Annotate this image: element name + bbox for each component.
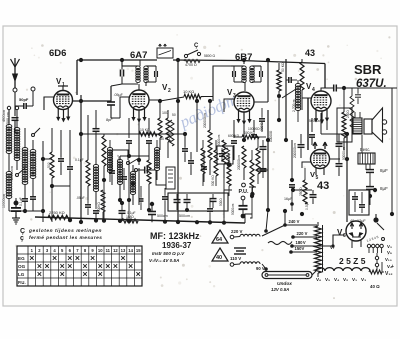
tuning coil L2: [14, 110, 20, 161]
svg-text:0.5μF: 0.5μF: [305, 201, 309, 210]
wire V4 top: [321, 88, 331, 92]
caps right of V3: [286, 77, 297, 83]
V5 bottom cap: [310, 190, 317, 204]
dots bottom extra: [68, 218, 226, 225]
tube V2 pins: [132, 108, 146, 122]
dot V3 cathode: [227, 162, 232, 167]
caps on bottom bus: [93, 198, 213, 222]
label 12uF: [350, 219, 366, 223]
capacitor 0.1uF left: [19, 196, 28, 211]
label V2: [162, 83, 171, 94]
wire V6 bottom pins: [352, 240, 361, 248]
cap x124 y176: [121, 168, 127, 190]
svg-text:Ç: Ç: [194, 43, 199, 49]
label 50 h: [172, 113, 176, 117]
svg-text:13: 13: [121, 248, 126, 253]
label 200000cm V5: [293, 143, 297, 158]
measurement table grid: [17, 246, 142, 286]
V2 screen res: [166, 110, 170, 158]
svg-text:43: 43: [305, 48, 315, 58]
svg-text:500Ω: 500Ω: [219, 198, 223, 206]
cap right V5 col: [336, 134, 343, 156]
svg-text:MF: 123kHz: MF: 123kHz: [150, 231, 200, 241]
wire v234 extend: [233, 145, 235, 160]
heater chain coils: [312, 268, 370, 275]
cap V4 cathode: [309, 135, 315, 145]
res on mid bus: [139, 128, 157, 136]
wire top bus drop at x122: [121, 60, 123, 66]
wire V1 plate to C: [73, 100, 112, 102]
mains cap stack: [234, 248, 246, 254]
wire rail x286: [285, 59, 287, 140]
label 50000cm V5: [342, 147, 346, 160]
svg-text:10: 10: [98, 248, 103, 253]
svg-text:ç: ç: [20, 235, 24, 242]
svg-text:240 V: 240 V: [289, 219, 300, 224]
tone control box: [157, 44, 173, 58]
band switch: [16, 128, 41, 177]
junctions under V2: [120, 138, 149, 165]
svg-text:2: 2: [168, 88, 171, 94]
tube V3 pins: [237, 110, 251, 124]
res PU: [250, 150, 254, 198]
tuning coil L3: [22, 128, 28, 185]
svg-text:600 KΩ: 600 KΩ: [228, 134, 240, 138]
svg-text:200000cm: 200000cm: [237, 155, 241, 170]
bottom bus: [35, 217, 245, 223]
tube V4 pins: [315, 109, 329, 123]
label 4900cm: [2, 110, 6, 122]
svg-text:10 KΩ: 10 KΩ: [140, 128, 150, 132]
IF1 cap right: [155, 66, 158, 82]
label 1936-37: [162, 241, 192, 250]
label V7V10: [149, 258, 179, 263]
svg-text:15: 15: [136, 248, 141, 253]
tuning coil L4: [30, 140, 36, 179]
svg-text:P.U.: P.U.: [239, 189, 249, 195]
labels 100 50K: [160, 111, 170, 141]
label 25Z5: [339, 256, 366, 266]
svg-text:250Ω: 250Ω: [346, 110, 350, 118]
label 05uF b: [76, 196, 85, 200]
cathode box V3: [217, 146, 233, 164]
label 43 top: [305, 48, 315, 58]
label 637U: [356, 78, 387, 90]
label 12V 05A: [271, 287, 289, 292]
filter block cap 3: [210, 194, 217, 208]
AVC diagonal wire: [282, 89, 296, 98]
label 10000cm: [2, 194, 6, 208]
V2 pins bottom wires: [129, 112, 149, 138]
earth terminal: [31, 87, 35, 91]
wire top bus drop at x244: [243, 60, 245, 64]
coil under 8pF: [93, 164, 98, 205]
cap 500cm bottom: [148, 202, 168, 223]
label Undox: [277, 281, 292, 287]
capacitor left x33: [30, 192, 36, 206]
IF2 coil left: [242, 66, 246, 83]
wire y222 drops: [52, 152, 224, 222]
svg-text:0.2μF: 0.2μF: [117, 155, 121, 163]
wire mid box: [112, 150, 170, 185]
res under V3 b: [242, 146, 246, 180]
svg-text:50 KΩ: 50 KΩ: [281, 62, 285, 72]
svg-text:220 V: 220 V: [231, 229, 243, 234]
res x103 low: [97, 190, 105, 221]
cap x263 a: [260, 140, 267, 156]
label Instr: [152, 251, 185, 256]
right V column: [385, 244, 392, 269]
table row labels: [18, 256, 26, 285]
cap x262 y120: [259, 108, 265, 132]
svg-text:110 V: 110 V: [230, 256, 241, 261]
svg-text:500 cm: 500 cm: [179, 214, 190, 218]
svg-text:0.1μF: 0.1μF: [75, 158, 84, 162]
Undox ballast: [262, 272, 312, 279]
wire v149 extend: [147, 200, 151, 212]
wire V2 grid left: [120, 97, 130, 118]
speaker body: [364, 108, 383, 142]
junction left bottom: [14, 201, 46, 214]
label 6A7: [130, 50, 147, 61]
svg-text:V₇: V₇: [330, 245, 335, 250]
junction x347: [321, 132, 349, 136]
label V3: [227, 88, 236, 99]
label 10000 rot: [269, 130, 273, 142]
capacitor antenna series: [12, 118, 19, 133]
bottom junctions: [94, 218, 212, 224]
svg-text:14: 14: [128, 248, 133, 253]
V4 bottom wires: [312, 113, 327, 134]
cap x191 y160: [188, 152, 194, 175]
filter block box: [168, 193, 228, 211]
svg-text:4700 Ω: 4700 Ω: [185, 63, 197, 67]
wire y87 to speaker: [340, 87, 397, 89]
wire top bus right: [173, 60, 325, 64]
svg-text:10000cm: 10000cm: [2, 194, 6, 208]
svg-text:1936-37: 1936-37: [162, 241, 192, 250]
tube V1: [54, 91, 73, 110]
svg-text:200000cm: 200000cm: [203, 113, 207, 128]
svg-text:90 V: 90 V: [256, 266, 265, 271]
wire top bus drop at x77: [76, 60, 78, 95]
wire x292 vert: [290, 140, 294, 182]
svg-text:4900cm: 4900cm: [2, 110, 6, 122]
screen resistor V1: [86, 160, 90, 200]
cap left V5 col: [298, 134, 305, 158]
wire rail x96: [95, 142, 97, 165]
IF2 cap right: [260, 66, 263, 82]
svg-text:gesloten tijdens metingen: gesloten tijdens metingen: [28, 228, 102, 234]
wire 90V to Undox: [262, 264, 266, 272]
svg-text:V₃: V₃: [387, 244, 392, 249]
res on rail 178: [170, 104, 174, 146]
tube V5 top pins: [313, 142, 327, 149]
capacitor cathode bypass: [58, 130, 64, 175]
switch C with resistor 4700: [184, 43, 201, 67]
coil L1b: [6, 171, 12, 211]
wire rail x88: [87, 115, 89, 160]
res x258 y150: [256, 136, 260, 184]
svg-text:150V: 150V: [295, 246, 305, 251]
ladder taps: [283, 219, 317, 254]
tube V6: [346, 221, 366, 241]
table header numbers: [31, 248, 142, 253]
wire x59 y186: [52, 180, 70, 186]
tube V3: [234, 92, 254, 112]
coil x110 y150: [107, 140, 112, 182]
res AVC2: [214, 140, 218, 186]
label MF 123kHz: [150, 231, 200, 241]
output transformer: [353, 112, 362, 134]
svg-text:P.U.: P.U.: [18, 280, 26, 285]
cap right V5 col2: [336, 156, 343, 176]
svg-text:180 V: 180 V: [296, 240, 306, 245]
wire coil bank mid: [9, 153, 33, 196]
triangle 40: [212, 248, 228, 261]
junction dots misc: [79, 58, 377, 216]
scan speckle texture: [15, 34, 391, 299]
svg-text:.05μF: .05μF: [76, 196, 85, 200]
wire bottom right hook: [245, 210, 268, 233]
svg-text:8pF: 8pF: [106, 118, 113, 122]
cap 8uF no2: [366, 182, 388, 196]
wire 268 to PU: [256, 169, 268, 171]
capacitor 0.1uF V1: [67, 130, 73, 180]
wire V6 left: [292, 235, 346, 248]
label V7 small: [330, 245, 335, 250]
label 50000cm: [309, 119, 323, 123]
wire V4 grid: [302, 98, 312, 110]
svg-text:500 KΩ: 500 KΩ: [211, 175, 215, 186]
svg-text:12: 12: [113, 248, 118, 253]
vert comp 2-700cm: [292, 80, 301, 122]
legend line 1: [20, 228, 102, 235]
legend line 2: [20, 235, 102, 242]
svg-text:10000Ω: 10000Ω: [248, 127, 260, 131]
IF2 top rail: [231, 65, 261, 67]
res AVC: [203, 99, 221, 175]
coil under V2: [117, 156, 122, 202]
res x203 y150: [201, 140, 205, 186]
svg-text:11: 11: [106, 248, 111, 253]
junction V1 cathode: [41, 141, 52, 161]
svg-text:V₁₀: V₁₀: [385, 257, 392, 262]
wire rail x347: [346, 134, 348, 222]
wire 10K leads: [160, 97, 213, 102]
label 05uF V5: [305, 201, 309, 210]
capacitor .05uF coupling: [107, 93, 124, 105]
vres x104: [102, 134, 106, 182]
wire V2 right rail: [149, 100, 160, 110]
wire v139 extend: [138, 168, 140, 205]
res 600K bottom: [234, 131, 266, 139]
wire right rail x392 low: [390, 140, 394, 216]
res under V2b: [147, 156, 151, 200]
mains 220V terminal: [230, 229, 260, 239]
junction x81: [79, 99, 83, 224]
wire heater right: [381, 262, 383, 272]
line cord squiggle: [268, 241, 292, 244]
wire mid link: [81, 133, 104, 135]
label V4: [306, 82, 315, 93]
svg-text:SBR: SBR: [354, 62, 382, 77]
filter block cap 2: [184, 194, 191, 212]
res 40ohm: [369, 270, 382, 289]
filter can box: [349, 190, 369, 215]
svg-text:40 Ω: 40 Ω: [370, 284, 380, 289]
wire speaker right rail: [391, 88, 393, 140]
label V1: [56, 77, 65, 88]
wire top bus left: [77, 59, 157, 61]
svg-text:Ç: Ç: [20, 228, 25, 235]
svg-text:200000cm: 200000cm: [293, 143, 297, 158]
svg-text:+: +: [391, 264, 394, 270]
cap x185: [182, 132, 188, 162]
ladder resistor: [315, 222, 323, 277]
mains 110V terminal: [230, 256, 260, 266]
coil x157 y150: [154, 140, 159, 180]
IF2 bottom rail: [234, 82, 261, 91]
wire V3 grid: [224, 99, 235, 112]
cap 8uF no1: [366, 164, 388, 182]
svg-text:LG: LG: [18, 272, 25, 277]
wire x197: [195, 99, 199, 152]
IF1 coil right: [144, 66, 148, 83]
coupling cap V4: [331, 85, 340, 92]
svg-text:Instr 500 Ω p.V: Instr 500 Ω p.V: [152, 251, 185, 256]
svg-text:50pF: 50pF: [19, 97, 29, 102]
osc junction dot: [131, 182, 135, 186]
tube V4: [311, 91, 331, 111]
triangle 64: [212, 230, 228, 243]
svg-text:100: 100: [162, 111, 168, 115]
antenna terminal: [13, 88, 17, 92]
svg-text:500cm: 500cm: [157, 214, 168, 218]
svg-text:8μF: 8μF: [380, 168, 388, 173]
res x229 y165: [227, 155, 231, 196]
label 1MOhm: [122, 215, 138, 223]
antenna: [11, 58, 20, 88]
res under V3: [222, 112, 226, 178]
wire IF2 feed: [213, 66, 231, 101]
V5 left parts: [299, 168, 307, 204]
mid bus y134: [104, 133, 185, 135]
svg-text:64: 64: [216, 237, 223, 243]
wire v129 extend: [127, 160, 131, 202]
wire antenna down: [14, 92, 16, 116]
svg-text:50: 50: [172, 113, 176, 117]
band switch box: [166, 167, 175, 189]
wire rail x81: [80, 95, 82, 222]
heater chain labels: [316, 277, 366, 282]
V3 bottom parts: [231, 114, 257, 143]
label 10000 d: [248, 127, 260, 131]
switch mains lever: [262, 230, 270, 237]
label 600K c: [228, 134, 240, 138]
svg-text:8μF: 8μF: [380, 186, 388, 191]
tube V5 bottom pins: [316, 168, 324, 175]
field coil box: [358, 135, 375, 170]
svg-text:6: 6: [343, 233, 346, 239]
resistor 500ohm cathode: [47, 128, 54, 178]
V6 top cap: [373, 214, 384, 230]
cap x356 y92: [355, 88, 361, 104]
label 43 big: [317, 180, 329, 192]
label 01uF a: [75, 158, 84, 162]
svg-text:V₃: V₃: [361, 277, 366, 282]
svg-text:5800 Ω: 5800 Ω: [204, 54, 215, 58]
switch mid: [127, 158, 140, 172]
V2 cathode res: [158, 110, 162, 150]
wire V1 grid: [44, 97, 54, 110]
label 4500cm: [6, 112, 10, 126]
ladder top wire: [262, 225, 285, 236]
label V5: [310, 170, 319, 181]
IF2 cap left: [233, 66, 236, 82]
svg-text:OG: OG: [18, 264, 26, 269]
cap x88 y205: [85, 200, 91, 215]
svg-text:V₁₂: V₁₂: [385, 271, 393, 277]
svg-text:fermé pendant les mesures: fermé pendant les mesures: [29, 235, 102, 241]
label 5800ohm: [204, 54, 215, 58]
label V6: [337, 228, 346, 239]
label 6B7: [235, 52, 252, 63]
svg-text:V₄: V₄: [334, 277, 339, 282]
res 2250K: [48, 210, 70, 220]
pin socket cluster: [366, 235, 385, 253]
PU terminal 2: [241, 196, 245, 200]
wire v224 extend: [223, 190, 225, 218]
IF1 cap left: [121, 66, 124, 84]
wire left bottom join: [9, 206, 43, 222]
cap x165 y196: [162, 188, 168, 210]
svg-text:43: 43: [317, 180, 329, 192]
tube V1 pins: [57, 108, 70, 122]
PU junction: [241, 187, 256, 218]
wire V3 plate: [254, 101, 268, 103]
label 02uF g: [117, 155, 121, 163]
wire 8uF rails: [366, 170, 372, 205]
IF1 bottom rail: [111, 60, 156, 90]
speaker terminals: [382, 120, 386, 134]
res 50K V3: [277, 62, 285, 120]
svg-text:12V 0.5A: 12V 0.5A: [271, 287, 289, 292]
resistor 10K right of V2: [183, 89, 201, 99]
cap AVC: [201, 150, 207, 182]
label SBR: [354, 62, 382, 77]
cap x263 b: [260, 156, 267, 178]
svg-text:40: 40: [216, 255, 222, 261]
capacitor 8pF: [93, 110, 114, 142]
res x344: [337, 86, 352, 150]
capacitor x112: [109, 150, 115, 185]
cap x292 y185: [284, 185, 295, 211]
capacitor 50pF: [15, 91, 33, 109]
label 90V tap: [256, 266, 268, 271]
IF1 top rail: [122, 65, 156, 67]
res x302: [300, 59, 304, 98]
svg-text:2 5 Z 5: 2 5 Z 5: [339, 256, 366, 266]
wire V1 top cap: [58, 86, 68, 91]
wire rail x178: [176, 58, 180, 224]
tube V2: [129, 90, 149, 110]
tuning coil L1: [6, 110, 12, 154]
wire rail x268 lower: [266, 110, 270, 212]
coil bank terminals: [7, 97, 18, 110]
socket chain terms: [375, 253, 378, 271]
IF2 coil right: [250, 66, 254, 83]
